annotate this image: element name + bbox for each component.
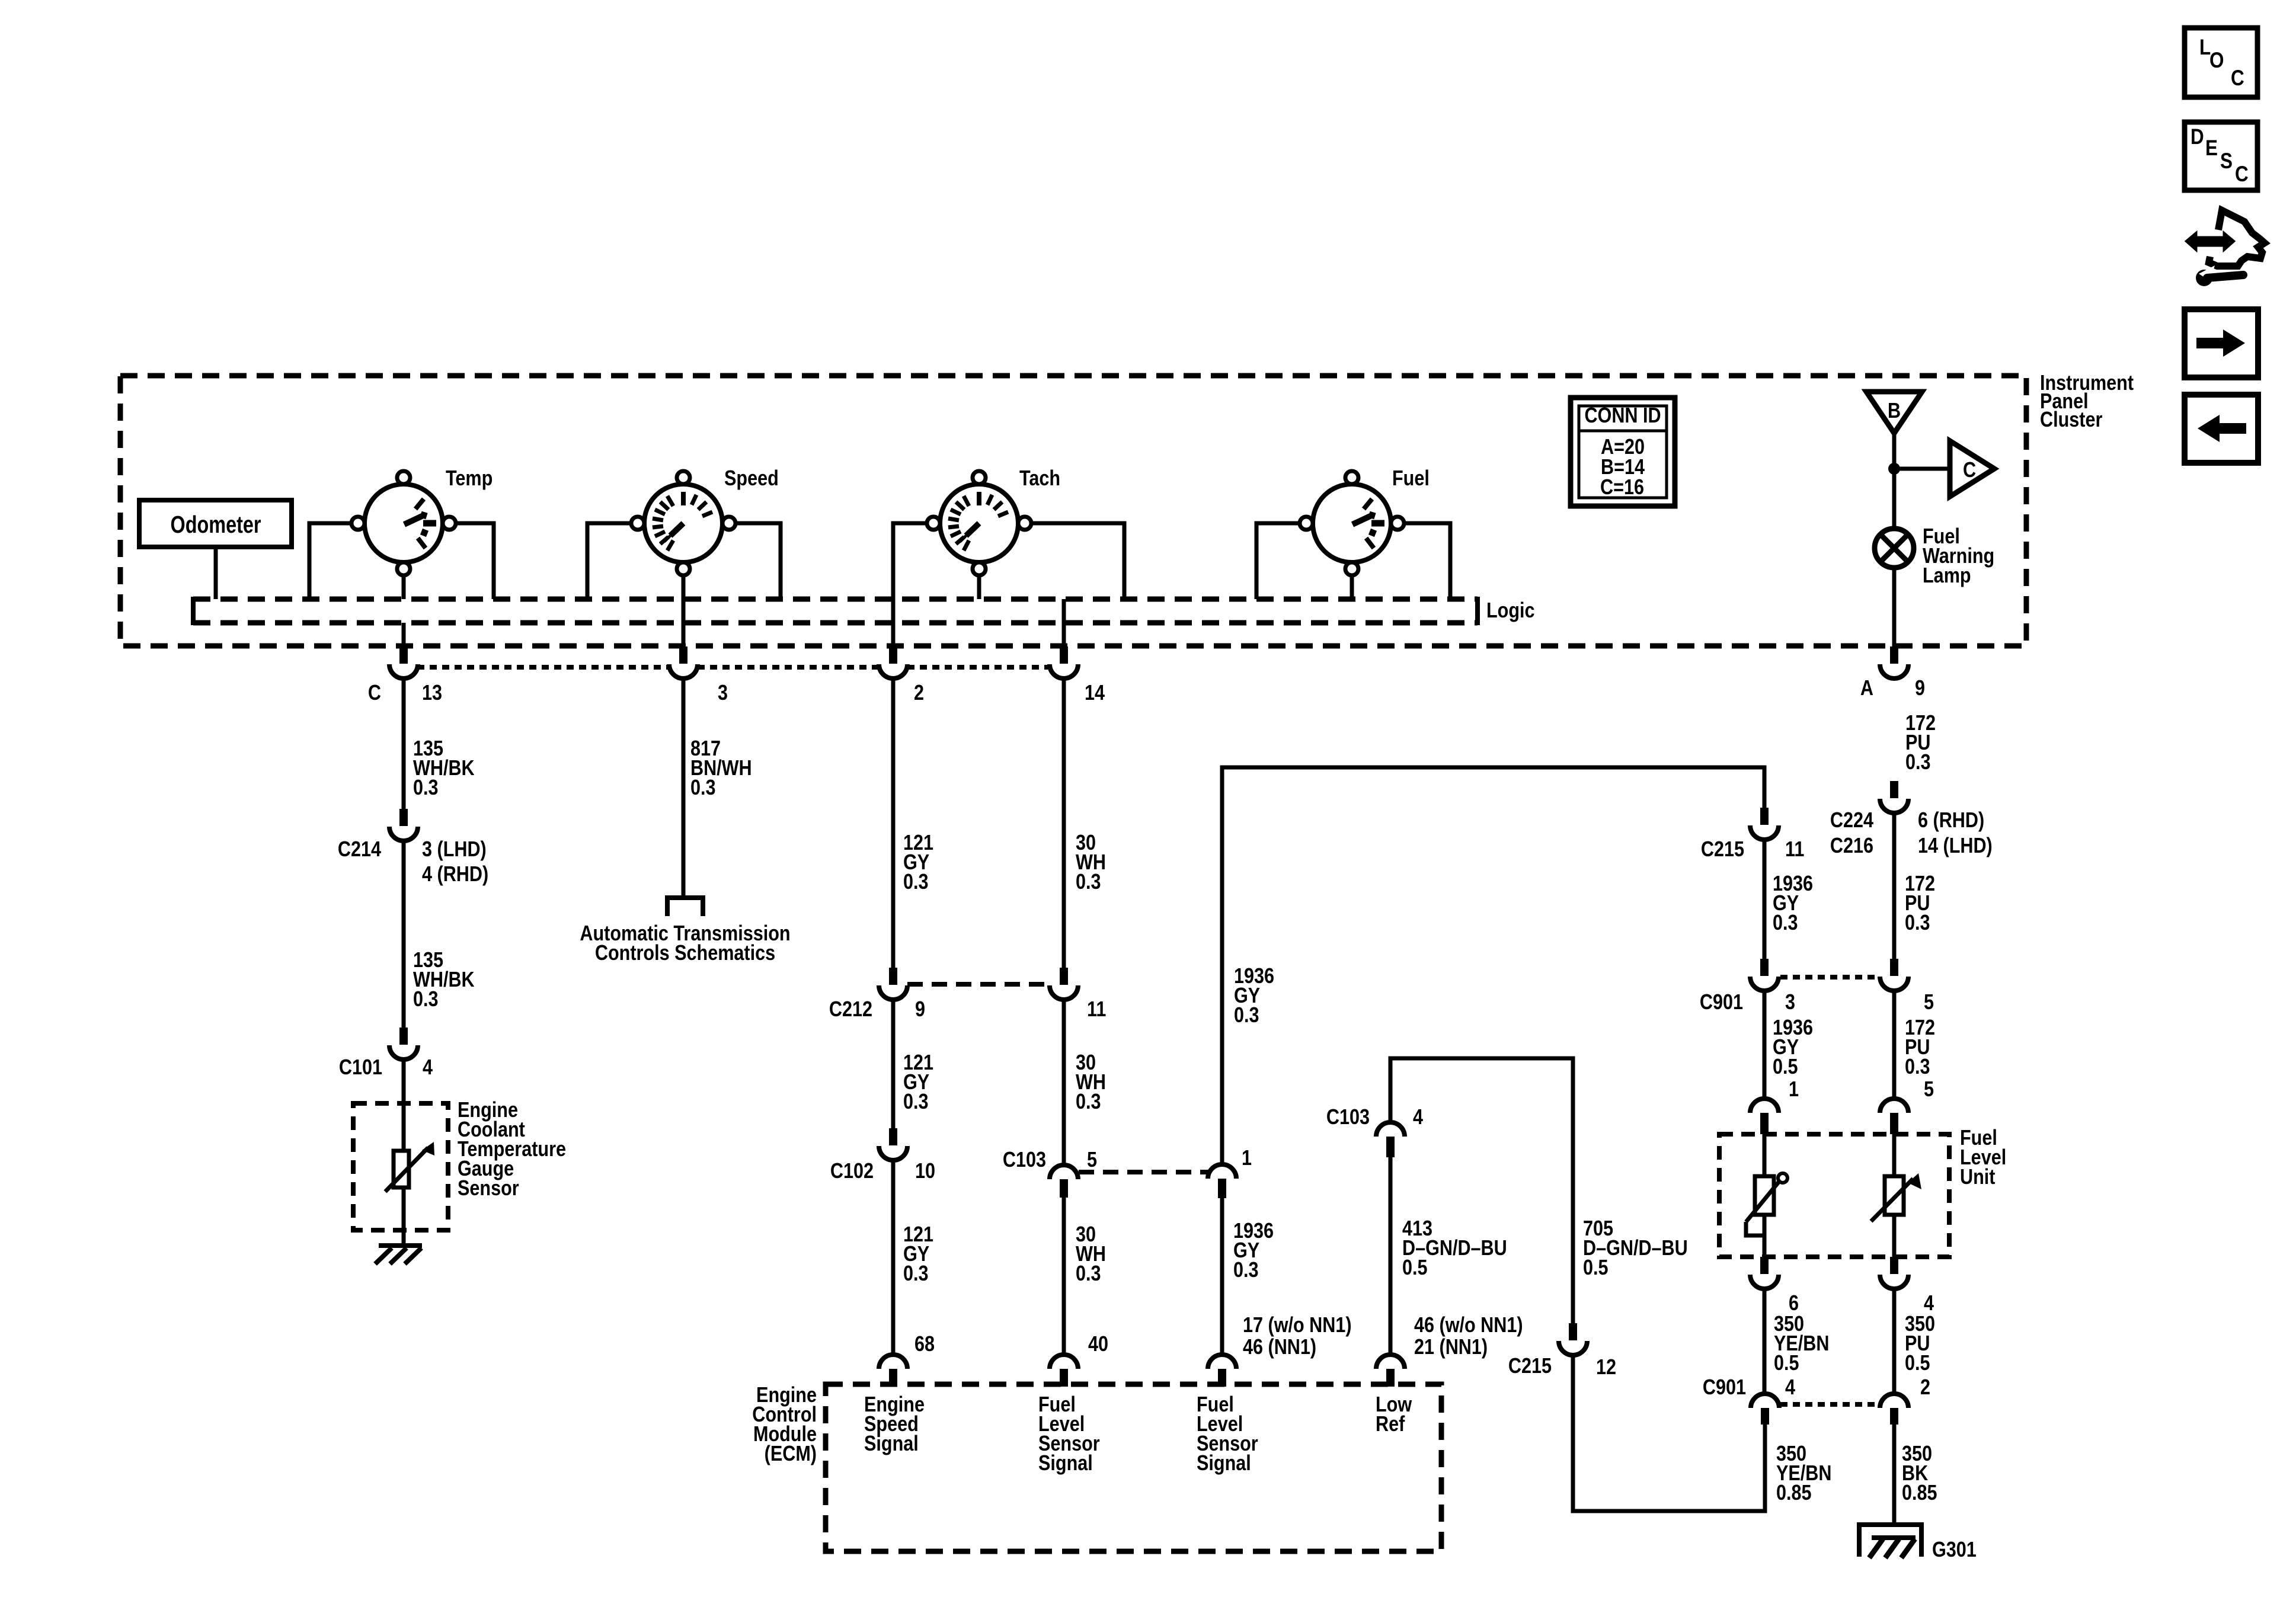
- label 413 D-GN/D-BU 0.5: [1402, 1217, 1507, 1280]
- wire temp right pin to logic: [456, 523, 494, 599]
- wire 3 to offpage: [682, 678, 686, 895]
- svg-text:0.3: 0.3: [413, 988, 439, 1012]
- label Speed: [724, 467, 779, 491]
- label 135 WH/BK 0.3 (2): [413, 949, 475, 1012]
- svg-text:Lamp: Lamp: [1923, 564, 1971, 588]
- svg-text:4: 4: [423, 1056, 433, 1080]
- connector pin 14: [1050, 646, 1078, 678]
- svg-text:40: 40: [1088, 1333, 1108, 1356]
- ECM dashed box: [826, 1384, 1441, 1551]
- svg-text:C224: C224: [1830, 809, 1874, 833]
- svg-text:10: 10: [915, 1160, 935, 1183]
- wire C901-5 to fuel level unit: [1892, 991, 1897, 1099]
- connector ECM fuel level sensor signal: [1208, 1355, 1236, 1387]
- svg-text:5: 5: [1087, 1148, 1097, 1172]
- svg-text:0.3: 0.3: [1076, 1090, 1101, 1114]
- ground (ECT sensor): [375, 1246, 422, 1264]
- label C102 10: [830, 1160, 935, 1183]
- wire flu-6 to C901-4: [1763, 1289, 1767, 1394]
- connector C901 pin 5: [1880, 959, 1908, 991]
- connector ECM low ref: [1376, 1355, 1405, 1387]
- connector pin 11: [1050, 968, 1078, 1000]
- label Fuel Level Sensor Signal (1): [1038, 1393, 1100, 1475]
- svg-text:Fuel: Fuel: [1392, 467, 1430, 491]
- label 705 D-GN/D-BU 0.5: [1583, 1217, 1688, 1280]
- connector C215 pin 12: [1559, 1323, 1587, 1355]
- wire C901-3 to fuel level unit: [1763, 991, 1767, 1099]
- connector pin 3: [669, 646, 698, 678]
- label Fuel Level Unit: [1960, 1126, 2006, 1189]
- svg-text:5: 5: [1924, 1078, 1934, 1102]
- ground G301: [1857, 1525, 1924, 1558]
- wire 13 to C214: [402, 623, 406, 809]
- gauge Tach: [927, 471, 1031, 575]
- svg-text:0.5: 0.5: [1774, 1352, 1799, 1375]
- label 1936 GY 0.3 (a): [1234, 965, 1274, 1028]
- svg-text:0.3: 0.3: [903, 1090, 929, 1114]
- svg-text:4: 4: [1785, 1376, 1795, 1400]
- label 6: [1789, 1292, 1799, 1315]
- dotted connector row: [417, 665, 1048, 670]
- icon right arrow box: [2185, 309, 2258, 377]
- wire tach bottom pin to logic: [977, 575, 981, 599]
- label 30 WH 0.3 (3): [1076, 1223, 1106, 1286]
- wire 14 to conn 11: [1062, 678, 1066, 968]
- wire C901-2 to G301: [1892, 1425, 1897, 1525]
- label 172 PU 0.3 (b): [1905, 872, 1935, 935]
- svg-text:0.5: 0.5: [1583, 1256, 1609, 1280]
- label 3: [718, 681, 728, 705]
- dashed link C901 bottom: [1780, 1402, 1878, 1407]
- wire 2 to C212: [891, 678, 896, 968]
- connector pin 2: [879, 646, 907, 678]
- label 11: [1087, 998, 1106, 1022]
- svg-text:5: 5: [1924, 991, 1934, 1014]
- label 4 (flu): [1924, 1292, 1934, 1315]
- connector fuel level unit right top: [1880, 1099, 1908, 1134]
- svg-text:Logic: Logic: [1486, 599, 1535, 623]
- svg-text:14 (LHD): 14 (LHD): [1918, 834, 1993, 858]
- wire C214 to C101: [402, 841, 406, 1028]
- svg-text:C901: C901: [1703, 1376, 1746, 1400]
- label C224 C216: [1830, 809, 1874, 858]
- wire fuel right pin to logic: [1404, 523, 1450, 599]
- svg-text:3 (LHD): 3 (LHD): [422, 838, 487, 862]
- wire flu-4 to C901-2: [1892, 1289, 1897, 1394]
- label 1: [1242, 1147, 1252, 1170]
- label 2: [914, 681, 924, 705]
- svg-text:C: C: [2231, 66, 2244, 91]
- label Temp: [446, 467, 493, 491]
- svg-text:0.85: 0.85: [1776, 1481, 1812, 1505]
- svg-text:C901: C901: [1700, 991, 1743, 1014]
- svg-text:D: D: [2191, 125, 2204, 149]
- svg-text:21 (NN1): 21 (NN1): [1414, 1336, 1488, 1359]
- connector fuel level unit left bottom 6: [1750, 1257, 1779, 1289]
- svg-text:17 (w/o NN1): 17 (w/o NN1): [1243, 1314, 1352, 1337]
- svg-text:46 (NN1): 46 (NN1): [1243, 1336, 1316, 1359]
- connector C212 pin 9: [879, 968, 907, 1000]
- label 68: [914, 1333, 935, 1356]
- connector C901 pin 4: [1751, 1394, 1779, 1425]
- label C215 12: [1508, 1355, 1616, 1379]
- label C103 4: [1326, 1106, 1424, 1129]
- label 1936 GY 0.5: [1773, 1016, 1813, 1079]
- svg-text:Cluster: Cluster: [2040, 408, 2102, 432]
- svg-text:E: E: [2205, 136, 2218, 161]
- label 5 (flu): [1924, 1078, 1934, 1102]
- svg-text:C215: C215: [1701, 838, 1744, 862]
- svg-text:12: 12: [1596, 1356, 1616, 1379]
- svg-text:11: 11: [1087, 998, 1106, 1022]
- wire C224 to C901-5: [1892, 813, 1897, 959]
- svg-text:1: 1: [1242, 1147, 1252, 1170]
- wire junction to C: [1894, 467, 1950, 471]
- fuel level unit dashed box: [1719, 1134, 1949, 1257]
- svg-text:C102: C102: [830, 1160, 874, 1183]
- wire speed bottom pin to connector 3: [682, 575, 686, 646]
- CONN ID table: [1571, 398, 1675, 506]
- svg-text:0.5: 0.5: [1402, 1256, 1428, 1280]
- wire C103-5 to ECM 40: [1062, 1198, 1066, 1355]
- label Low Ref: [1376, 1393, 1412, 1436]
- svg-text:(ECM): (ECM): [765, 1442, 817, 1466]
- svg-text:14: 14: [1085, 681, 1105, 705]
- svg-text:2: 2: [1920, 1376, 1930, 1400]
- label 121 GY 0.3 (3): [903, 1223, 933, 1286]
- wire C103-4 up and over to C215-12: [1390, 1058, 1573, 1323]
- label C215 11: [1701, 838, 1804, 862]
- svg-text:C=16: C=16: [1600, 476, 1644, 500]
- label 121 GY 0.3 (2): [903, 1051, 933, 1114]
- svg-text:0.5: 0.5: [1773, 1055, 1798, 1079]
- connector C101: [389, 1028, 418, 1060]
- fuel level sensor (rheostat with wiper): [1746, 1134, 1787, 1257]
- label Engine Control Module (ECM): [752, 1384, 817, 1466]
- label C901 4: [1703, 1376, 1796, 1400]
- odometer box: [139, 500, 292, 547]
- connector fuel level unit right bottom 4: [1880, 1257, 1908, 1289]
- icon LOC box: [2185, 28, 2257, 97]
- label 1: [1789, 1078, 1799, 1102]
- svg-text:9: 9: [1915, 677, 1925, 700]
- svg-text:C214: C214: [338, 838, 382, 862]
- label Fuel: [1392, 467, 1430, 491]
- svg-text:Signal: Signal: [1197, 1452, 1251, 1475]
- dashed link C103: [1079, 1170, 1208, 1174]
- label 5: [1924, 991, 1934, 1014]
- svg-text:0.3: 0.3: [1076, 870, 1101, 894]
- label 350 PU 0.5: [1905, 1313, 1935, 1375]
- logic dashed box: [193, 597, 1478, 625]
- svg-text:S: S: [2220, 149, 2233, 174]
- label C101 4: [339, 1056, 433, 1080]
- connector C224/C216: [1880, 781, 1908, 813]
- svg-text:Sensor: Sensor: [458, 1177, 519, 1201]
- label C901 3: [1700, 991, 1795, 1014]
- wire fuel left pin to logic: [1256, 523, 1300, 599]
- wire tach left pin to connector 2: [893, 523, 927, 646]
- icon car with wrench: [2186, 210, 2265, 286]
- svg-text:1: 1: [1789, 1078, 1799, 1102]
- label Logic: [1486, 599, 1535, 623]
- offpage connector (auto trans): [667, 898, 703, 916]
- dashed link C901 top: [1780, 975, 1878, 980]
- label 121 GY 0.3: [903, 831, 933, 894]
- svg-text:C216: C216: [1830, 834, 1873, 858]
- label 172 PU 0.3 (c): [1905, 1016, 1935, 1079]
- svg-text:G301: G301: [1932, 1538, 1977, 1562]
- svg-text:Controls Schematics: Controls Schematics: [595, 942, 775, 965]
- svg-text:Signal: Signal: [864, 1432, 919, 1456]
- svg-text:A: A: [1860, 677, 1873, 700]
- gauge Speed: [631, 471, 736, 575]
- wire C212 to C102: [891, 1000, 896, 1128]
- wire horizontal 1936 GY: [1222, 767, 1764, 1164]
- label 2 (c901): [1920, 1376, 1930, 1400]
- label 350 YE/BN 0.85: [1776, 1442, 1831, 1505]
- junction: [1888, 463, 1900, 475]
- label C 13: [368, 681, 442, 705]
- svg-text:9: 9: [915, 998, 925, 1022]
- svg-text:Odometer: Odometer: [171, 511, 261, 537]
- wire B to lamp: [1892, 433, 1897, 529]
- wire fuel bottom pin to logic: [1350, 575, 1354, 599]
- connector ECM 68: [879, 1355, 907, 1387]
- dashed link C212: [907, 982, 1050, 987]
- svg-text:0.3: 0.3: [1905, 911, 1930, 935]
- connector C103 pin 4: [1376, 1122, 1405, 1157]
- wire temp left pin to logic: [309, 523, 351, 599]
- label 350 BK 0.85: [1902, 1442, 1937, 1505]
- svg-text:C215: C215: [1508, 1355, 1552, 1378]
- label 46 (w/o NN1) 21 (NN1): [1414, 1314, 1523, 1359]
- connector ECM 40: [1050, 1355, 1078, 1387]
- wire C102 to ECM 68: [891, 1160, 896, 1355]
- triangle B: [1866, 392, 1922, 433]
- gauge Fuel: [1300, 471, 1404, 575]
- label 172 PU 0.3 (a): [1905, 712, 1936, 774]
- label Automatic Transmission Controls Schematics: [580, 922, 790, 965]
- svg-text:6: 6: [1789, 1292, 1799, 1315]
- wire C215-12 to C901-4: [1573, 1355, 1765, 1511]
- connector A pin 9: [1880, 646, 1908, 678]
- label 1936 GY 0.3 (c): [1773, 872, 1813, 935]
- fuel warning lamp: [1875, 529, 1914, 568]
- icon DESC box: [2185, 122, 2257, 190]
- label 817 BN/WH 0.3: [690, 737, 752, 800]
- svg-text:0.3: 0.3: [413, 776, 439, 800]
- svg-text:Speed: Speed: [724, 467, 779, 491]
- connector C215 pin 11: [1750, 808, 1779, 840]
- label 17 (w/o NN1) 46 (NN1): [1243, 1314, 1352, 1359]
- label Tach: [1019, 467, 1060, 491]
- label Fuel Warning Lamp: [1923, 525, 1994, 588]
- svg-text:2: 2: [914, 681, 924, 705]
- label Instrument Panel Cluster: [2040, 372, 2134, 432]
- engine coolant temp sensor dashed box: [353, 1103, 448, 1230]
- wire lamp to connector A9: [1892, 568, 1897, 646]
- svg-text:C101: C101: [339, 1056, 382, 1080]
- svg-text:0.3: 0.3: [1076, 1262, 1101, 1286]
- svg-text:Temp: Temp: [446, 467, 493, 491]
- svg-text:C: C: [1963, 459, 1976, 482]
- svg-text:CONN ID: CONN ID: [1584, 404, 1661, 428]
- svg-text:0.3: 0.3: [1234, 1004, 1259, 1028]
- connector C901 pin 2: [1880, 1394, 1908, 1425]
- label 6 (RHD) 14 (LHD): [1918, 809, 1993, 858]
- label 14: [1085, 681, 1105, 705]
- label 135 WH/BK 0.3: [413, 737, 475, 800]
- connector C901 pin 3: [1750, 959, 1779, 991]
- connector C102 pin 10: [879, 1128, 907, 1160]
- svg-text:0.3: 0.3: [1233, 1259, 1259, 1282]
- svg-text:46 (w/o NN1): 46 (w/o NN1): [1414, 1314, 1523, 1337]
- svg-text:4: 4: [1413, 1106, 1423, 1129]
- wire odometer to logic: [214, 547, 218, 599]
- icon left arrow box: [2185, 395, 2258, 463]
- svg-text:0.3: 0.3: [903, 870, 929, 894]
- variable resistor (ECT sensor): [385, 1142, 434, 1192]
- label Engine Coolant Temperature Gauge Sensor: [458, 1099, 566, 1201]
- wire 1 to ECM: [1220, 1198, 1224, 1355]
- svg-text:4 (RHD): 4 (RHD): [422, 863, 488, 886]
- svg-text:13: 13: [422, 681, 442, 705]
- svg-text:C: C: [368, 681, 381, 705]
- svg-text:3: 3: [1785, 991, 1795, 1014]
- svg-text:C: C: [2235, 162, 2249, 187]
- svg-text:4: 4: [1924, 1292, 1934, 1315]
- connector C pin 13: [389, 646, 418, 678]
- wire tach right pin to logic: [1031, 523, 1124, 599]
- label 40: [1088, 1333, 1108, 1356]
- svg-text:C212: C212: [829, 998, 872, 1022]
- label C103 5: [1003, 1148, 1097, 1172]
- wire C215-11 to C901-3: [1763, 840, 1767, 959]
- label 30 WH 0.3 (2): [1076, 1051, 1106, 1114]
- svg-text:0.3: 0.3: [690, 776, 716, 800]
- wire speed right pin to logic: [736, 523, 781, 599]
- wire temp bottom pin to logic: [402, 575, 406, 599]
- svg-text:C103: C103: [1003, 1148, 1046, 1172]
- wire speed left pin to logic: [587, 523, 631, 599]
- svg-text:C103: C103: [1326, 1106, 1370, 1129]
- connector fuel level unit left top: [1750, 1099, 1779, 1134]
- label 1936 GY 0.3 (b): [1233, 1219, 1274, 1282]
- connector C103 pin 5: [1050, 1165, 1078, 1198]
- svg-text:11: 11: [1785, 838, 1804, 862]
- fuel level variable resistor: [1871, 1134, 1921, 1257]
- wire sensor to ground: [402, 1188, 406, 1246]
- label 30 WH 0.3: [1076, 831, 1106, 894]
- label 350 YE/BN 0.5: [1774, 1313, 1829, 1375]
- svg-text:0.5: 0.5: [1905, 1352, 1930, 1375]
- instrument panel cluster dashed box: [120, 376, 2026, 646]
- svg-text:0.3: 0.3: [1773, 911, 1798, 935]
- svg-text:Signal: Signal: [1038, 1452, 1093, 1475]
- wire C103-4 to ECM low ref: [1389, 1157, 1393, 1355]
- gauge Temp: [351, 471, 456, 575]
- svg-text:68: 68: [914, 1333, 935, 1356]
- label C212 9: [829, 998, 925, 1022]
- svg-text:0.3: 0.3: [1905, 751, 1931, 774]
- svg-text:Unit: Unit: [1960, 1166, 1995, 1189]
- label G301: [1932, 1538, 1977, 1562]
- connector pin 1: [1208, 1164, 1236, 1198]
- svg-text:6 (RHD): 6 (RHD): [1918, 809, 1984, 833]
- svg-text:Tach: Tach: [1019, 467, 1060, 491]
- svg-text:B: B: [1888, 399, 1901, 423]
- svg-text:0.3: 0.3: [903, 1262, 929, 1286]
- label A 9: [1860, 677, 1925, 700]
- label C214 3 (LHD) 4 (RHD): [338, 838, 488, 886]
- svg-text:O: O: [2209, 49, 2224, 73]
- label Fuel Level Sensor Signal (2): [1197, 1393, 1258, 1475]
- triangle C: [1950, 441, 1994, 497]
- svg-text:3: 3: [718, 681, 728, 705]
- svg-text:0.85: 0.85: [1902, 1481, 1937, 1505]
- label Engine Speed Signal: [864, 1393, 925, 1456]
- svg-text:Ref: Ref: [1376, 1413, 1405, 1436]
- wire 11 to C103-5: [1062, 1000, 1066, 1165]
- wire C101 to sensor: [402, 1060, 406, 1151]
- connector C214: [389, 809, 418, 841]
- svg-text:0.3: 0.3: [1905, 1055, 1930, 1079]
- wire pin14 from logic: [1062, 599, 1066, 646]
